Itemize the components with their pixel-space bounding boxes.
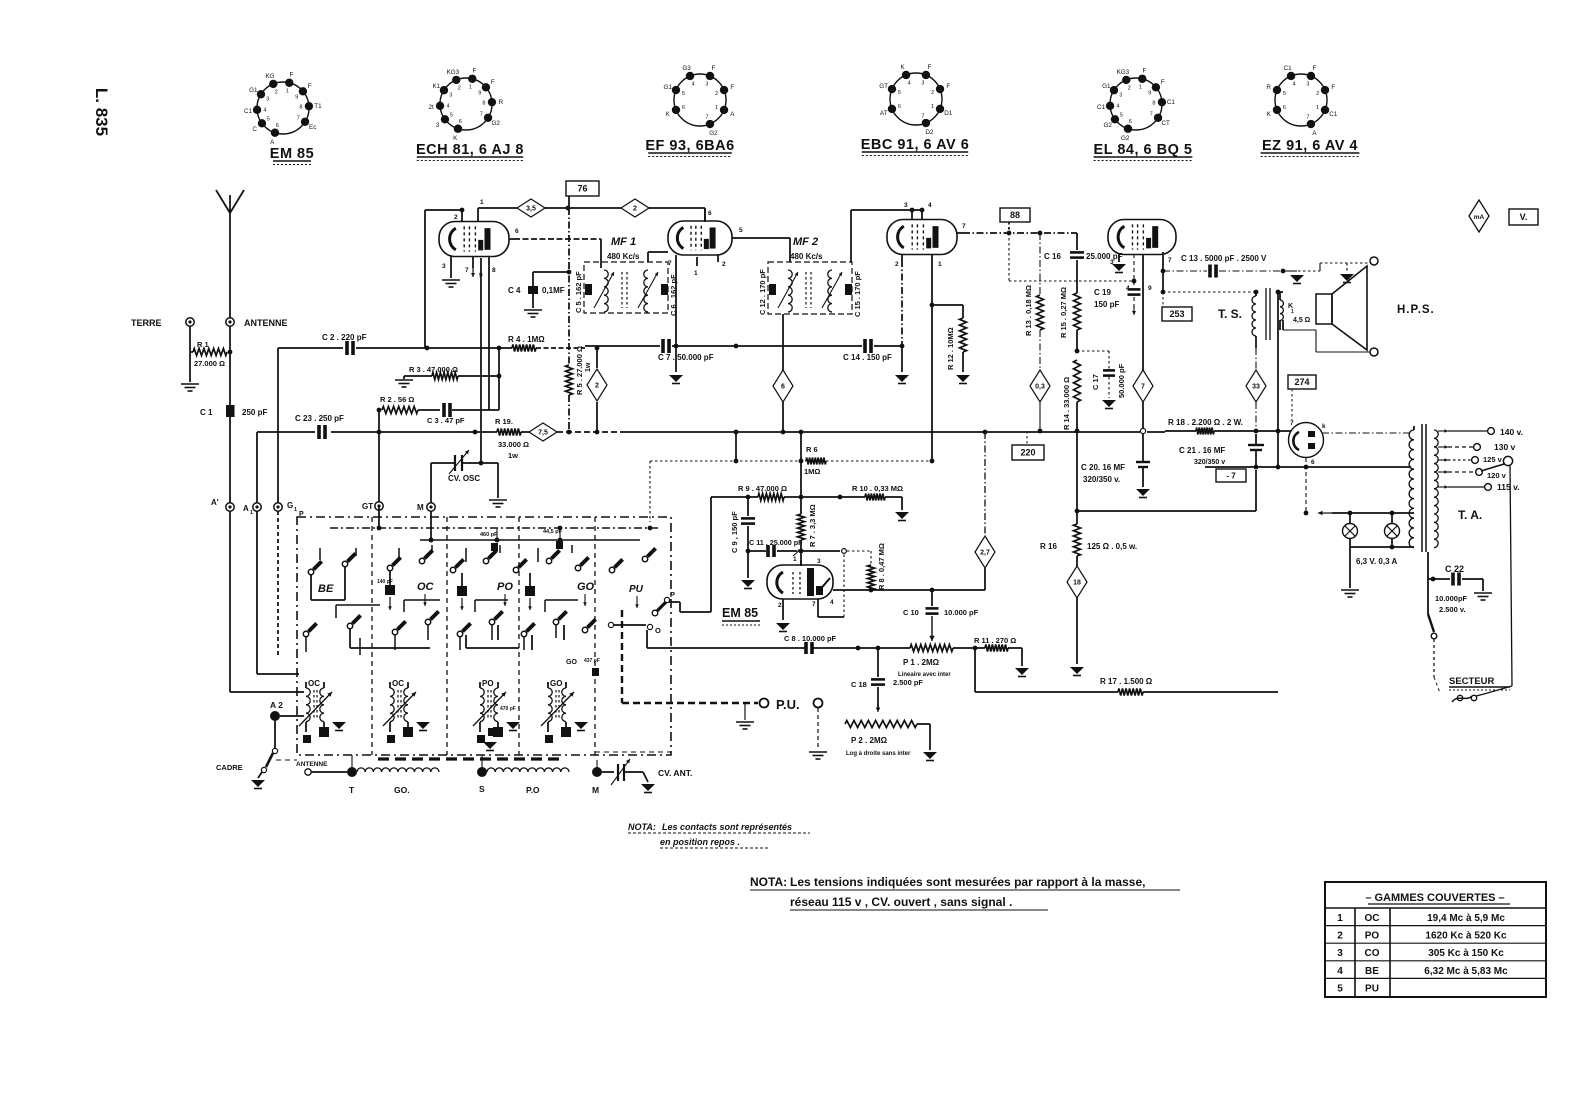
capacitor C6 162pF bbox=[661, 274, 678, 316]
svg-text:T. S.: T. S. bbox=[1218, 307, 1242, 321]
svg-text:Les tensions indiquées sont me: Les tensions indiquées sont mesurées par… bbox=[790, 875, 1145, 889]
svg-text:CO: CO bbox=[1365, 948, 1380, 959]
svg-text:2,7: 2,7 bbox=[980, 550, 990, 557]
svg-text:1: 1 bbox=[1139, 85, 1142, 91]
svg-text:F: F bbox=[711, 65, 715, 72]
svg-text:KG3: KG3 bbox=[1117, 69, 1130, 76]
svg-text:140 v.: 140 v. bbox=[1500, 427, 1523, 437]
svg-text:AT: AT bbox=[880, 110, 888, 117]
svg-text:18: 18 bbox=[1073, 580, 1081, 587]
wire EF93 plate to MF2 bbox=[738, 237, 790, 239]
svg-text:3: 3 bbox=[904, 202, 908, 209]
ground below TERRE bbox=[181, 352, 199, 391]
svg-text:G1: G1 bbox=[249, 87, 258, 94]
voltage diamond 3,5 bbox=[517, 199, 545, 217]
svg-text:C 9 , 150 pF: C 9 , 150 pF bbox=[730, 511, 739, 553]
svg-text:10.000 pF: 10.000 pF bbox=[944, 608, 979, 617]
svg-text:Les contacts sont représentés: Les contacts sont représentés bbox=[662, 822, 792, 832]
svg-text:R: R bbox=[1266, 84, 1271, 91]
bus to EZ91 bbox=[1165, 430, 1196, 432]
capacitor C1 250pF bbox=[200, 405, 267, 417]
wire AVC line y=348 bbox=[278, 347, 343, 349]
resistor R17 1.500 ohm bbox=[1100, 677, 1153, 696]
wire MF2 secondary to EBC91 bbox=[850, 210, 852, 262]
svg-text:320/350 v: 320/350 v bbox=[1194, 459, 1225, 466]
svg-text:C 1: C 1 bbox=[200, 408, 213, 417]
capacitor C15 170pF bbox=[845, 271, 862, 317]
svg-text:C1: C1 bbox=[1097, 104, 1106, 111]
svg-text:– GAMMES COUVERTES –: – GAMMES COUVERTES – bbox=[1365, 892, 1504, 904]
svg-text:1: 1 bbox=[715, 105, 718, 111]
svg-text:P 1 . 2MΩ: P 1 . 2MΩ bbox=[903, 658, 940, 667]
wire y=497 R9 R10 bbox=[711, 496, 758, 498]
svg-text:C1: C1 bbox=[244, 108, 253, 115]
svg-text:NOTA:: NOTA: bbox=[750, 875, 787, 889]
voltage diamond 6 bbox=[773, 314, 793, 432]
capacitor C4 0,1MF bbox=[508, 270, 571, 317]
terminal G1 bbox=[274, 501, 304, 518]
svg-text:2: 2 bbox=[275, 89, 278, 95]
PU jacks bbox=[760, 697, 823, 712]
svg-text:P.U.: P.U. bbox=[776, 697, 800, 712]
wire cathode line y=467 bbox=[1205, 466, 1256, 468]
svg-text:1: 1 bbox=[1337, 913, 1343, 924]
svg-text:7: 7 bbox=[812, 601, 816, 608]
dashed drop to GO section bbox=[649, 461, 651, 522]
band label GO bbox=[577, 581, 595, 606]
ECH81 pin stubs bbox=[442, 199, 519, 279]
svg-text:470 pF: 470 pF bbox=[500, 706, 516, 712]
svg-text:2: 2 bbox=[458, 85, 461, 91]
svg-text:6: 6 bbox=[781, 384, 785, 391]
resistor R10 0,33M bbox=[852, 484, 903, 501]
svg-text:8: 8 bbox=[299, 105, 302, 111]
svg-text:5: 5 bbox=[1283, 91, 1286, 97]
band label BE bbox=[318, 583, 334, 595]
svg-text:120 v: 120 v bbox=[1487, 471, 1507, 480]
svg-text:L. 835: L. 835 bbox=[92, 88, 111, 136]
svg-text:Ec: Ec bbox=[309, 124, 316, 131]
shielded PU lead bbox=[621, 610, 623, 703]
svg-text:G2: G2 bbox=[709, 130, 718, 137]
voltage diamond 0,3 bbox=[1030, 370, 1050, 402]
ground PU right bbox=[809, 708, 827, 759]
svg-text:C 4: C 4 bbox=[508, 286, 521, 295]
voltage diamond 18 bbox=[1067, 566, 1087, 598]
svg-text:R 14 . 33.000 Ω: R 14 . 33.000 Ω bbox=[1062, 377, 1071, 430]
EM85 pins bbox=[776, 553, 844, 632]
svg-text:F: F bbox=[473, 68, 477, 75]
svg-text:3: 3 bbox=[436, 122, 440, 129]
svg-text:C 22: C 22 bbox=[1445, 564, 1464, 574]
svg-text:F: F bbox=[1312, 65, 1316, 72]
svg-text:1: 1 bbox=[250, 510, 253, 516]
svg-text:GO: GO bbox=[550, 679, 562, 688]
arrow ECH81 pin7 bbox=[472, 268, 474, 277]
svg-text:7: 7 bbox=[705, 115, 708, 121]
capacitor C13 5000pF 2500V bbox=[1163, 254, 1304, 284]
svg-text:C 20. 16 MF: C 20. 16 MF bbox=[1081, 463, 1125, 472]
svg-text:9: 9 bbox=[295, 94, 298, 100]
resistor R3 47.000 ohm bbox=[404, 365, 501, 380]
wire ECH81 grid loop bbox=[424, 210, 426, 347]
svg-text:1w: 1w bbox=[508, 451, 518, 460]
svg-text:C 3 . 47 pF: C 3 . 47 pF bbox=[427, 416, 465, 425]
wire grid top y=208 bbox=[478, 207, 517, 209]
svg-text:M: M bbox=[592, 785, 599, 795]
table row 5 PU bbox=[1325, 978, 1546, 994]
EZ91 heater drop bbox=[1305, 458, 1307, 513]
svg-text:G2: G2 bbox=[491, 120, 500, 127]
svg-text:EBC 91, 6 AV 6: EBC 91, 6 AV 6 bbox=[861, 137, 970, 153]
svg-text:V.: V. bbox=[1520, 212, 1528, 222]
svg-text:OC: OC bbox=[308, 679, 320, 688]
svg-text:G3: G3 bbox=[682, 65, 691, 72]
svg-text:7: 7 bbox=[1306, 115, 1309, 121]
svg-text:R 17 . 1.500 Ω: R 17 . 1.500 Ω bbox=[1100, 677, 1153, 686]
svg-text:F: F bbox=[290, 72, 294, 79]
resistor R18 2.200 ohm 2W bbox=[1168, 418, 1243, 435]
svg-text:437 pF: 437 pF bbox=[584, 658, 600, 664]
svg-text:3: 3 bbox=[705, 81, 708, 87]
svg-text:en position repos .: en position repos . bbox=[660, 837, 740, 847]
wire AF bus y=648 bbox=[646, 630, 648, 648]
svg-text:- 7: - 7 bbox=[1226, 472, 1236, 481]
svg-text:1: 1 bbox=[694, 270, 698, 277]
svg-text:GO.: GO. bbox=[394, 785, 410, 795]
svg-text:T: T bbox=[349, 785, 355, 795]
svg-text:5: 5 bbox=[739, 227, 743, 234]
shielding bar above coil strip bbox=[378, 757, 564, 760]
wire line y=461 with R6 bbox=[650, 460, 806, 462]
tap 140v bbox=[1438, 430, 1448, 432]
capacitor C20 16MF bbox=[1081, 434, 1150, 498]
svg-text:R 1: R 1 bbox=[197, 340, 209, 349]
svg-text:1: 1 bbox=[1291, 309, 1294, 315]
band label PU bbox=[629, 584, 644, 608]
EZ91 rectifier bbox=[1289, 420, 1327, 466]
secteur switch bbox=[1428, 579, 1437, 677]
svg-text:OC: OC bbox=[392, 679, 404, 688]
svg-text:2: 2 bbox=[1128, 85, 1131, 91]
resistor R5 27.000 ohm 1w bbox=[566, 346, 593, 395]
svg-text:1: 1 bbox=[1316, 105, 1319, 111]
svg-text:150 pF: 150 pF bbox=[1094, 300, 1119, 309]
svg-text:C 17: C 17 bbox=[1091, 374, 1100, 390]
svg-text:480 Kc/s: 480 Kc/s bbox=[607, 252, 640, 261]
capacitor C22 bbox=[1428, 552, 1492, 614]
svg-text:2t: 2t bbox=[428, 104, 434, 111]
svg-text:8: 8 bbox=[492, 267, 496, 274]
voltage diamond 7 bbox=[1133, 370, 1153, 434]
tap 130v bbox=[1438, 446, 1448, 448]
svg-text:K1: K1 bbox=[432, 83, 440, 90]
terminal A-prime bbox=[211, 498, 234, 511]
svg-text:KG3: KG3 bbox=[447, 69, 460, 76]
svg-text:G1: G1 bbox=[1102, 83, 1111, 90]
wire A1 drop bbox=[256, 432, 258, 503]
label SECTEUR bbox=[1449, 676, 1510, 690]
svg-text:C 19: C 19 bbox=[1094, 288, 1111, 297]
wire 76 drop / R5 line bbox=[568, 196, 570, 208]
band label PO bbox=[497, 581, 513, 606]
svg-text:7: 7 bbox=[297, 116, 300, 122]
wave switch contacts row B bbox=[303, 631, 308, 636]
svg-text:5: 5 bbox=[450, 113, 453, 119]
IF transformer MF1 480 Kc/s bbox=[584, 236, 668, 313]
svg-text:250 pF: 250 pF bbox=[242, 408, 267, 417]
svg-text:125 Ω . 0,5 w.: 125 Ω . 0,5 w. bbox=[1087, 542, 1137, 551]
table row 4 BE bbox=[1325, 961, 1546, 977]
coil group L-PO bbox=[473, 679, 520, 743]
svg-text:R 4 . 1MΩ: R 4 . 1MΩ bbox=[508, 335, 545, 344]
svg-text:P 2 . 2MΩ: P 2 . 2MΩ bbox=[851, 736, 888, 745]
tap 125v bbox=[1438, 459, 1448, 461]
svg-text:C 21 . 16 MF: C 21 . 16 MF bbox=[1179, 446, 1225, 455]
svg-text:R 13 . 0,18 MΩ: R 13 . 0,18 MΩ bbox=[1024, 285, 1033, 336]
svg-text:253: 253 bbox=[1169, 309, 1184, 319]
svg-text:4: 4 bbox=[908, 80, 911, 86]
dashed PU screen box bbox=[670, 752, 672, 755]
wire EF93 cathode bypass bbox=[675, 262, 677, 372]
svg-text:1: 1 bbox=[931, 104, 934, 110]
resistor R4 1M bbox=[508, 335, 545, 352]
coil PO antenna rod bbox=[487, 768, 569, 795]
svg-text:P.O: P.O bbox=[526, 785, 540, 795]
terminal A2 bbox=[270, 700, 304, 721]
mains selector arm bbox=[1481, 456, 1513, 686]
svg-text:GO: GO bbox=[566, 659, 577, 666]
wire AF bus2 y=692 with R17 bbox=[975, 691, 1118, 693]
speaker terminals bbox=[1280, 257, 1378, 356]
note tensions bbox=[750, 875, 1180, 910]
svg-text:S: S bbox=[479, 784, 485, 794]
wire C11 to R8 top bbox=[801, 550, 840, 552]
wire antenna vertical bbox=[229, 326, 231, 405]
resistor R9 47.000 ohm bbox=[738, 484, 787, 501]
svg-text:G2: G2 bbox=[1121, 135, 1130, 142]
wire C21 return y=511 bbox=[1077, 510, 1256, 512]
svg-text:320/350 v.: 320/350 v. bbox=[1083, 475, 1120, 484]
svg-text:F: F bbox=[927, 64, 931, 71]
svg-text:P: P bbox=[670, 590, 675, 599]
svg-text:R 9 . 47.000 Ω: R 9 . 47.000 Ω bbox=[738, 484, 787, 493]
tube socket EZ91 bbox=[1261, 65, 1360, 156]
svg-text:2.500 v.: 2.500 v. bbox=[1439, 605, 1466, 614]
svg-text:115 v.: 115 v. bbox=[1497, 482, 1520, 492]
svg-text:7: 7 bbox=[1141, 384, 1145, 391]
svg-text:F: F bbox=[1161, 79, 1165, 86]
svg-text:7: 7 bbox=[668, 260, 672, 267]
svg-text:2: 2 bbox=[595, 383, 599, 390]
svg-text:M: M bbox=[417, 503, 424, 512]
wire bus to grid network bbox=[735, 432, 737, 462]
svg-text:1: 1 bbox=[938, 261, 942, 268]
svg-text:7: 7 bbox=[921, 114, 924, 120]
svg-text:CT: CT bbox=[1161, 120, 1170, 127]
svg-text:R 19.: R 19. bbox=[495, 417, 513, 426]
capacitor C17 50.000pF bbox=[1077, 351, 1126, 409]
svg-text:MF 2: MF 2 bbox=[793, 236, 818, 248]
voltage diamond 2 vertical bbox=[587, 346, 607, 432]
svg-text:R 8 . 0,47 MΩ: R 8 . 0,47 MΩ bbox=[877, 543, 886, 590]
svg-text:GT: GT bbox=[879, 83, 888, 90]
feedback dashed from TS bottom bbox=[1255, 348, 1257, 370]
terminal T bbox=[347, 767, 357, 795]
voltage box 253 bbox=[1162, 307, 1192, 321]
wire oscillator grid vertical bbox=[498, 348, 500, 410]
svg-text:3: 3 bbox=[1337, 948, 1343, 959]
svg-text:C 16: C 16 bbox=[1044, 252, 1061, 261]
svg-text:3: 3 bbox=[1306, 81, 1309, 87]
svg-text:C 2 . 220 pF: C 2 . 220 pF bbox=[322, 333, 367, 342]
terminal small antenna bbox=[296, 761, 347, 775]
svg-text:9: 9 bbox=[1148, 90, 1151, 96]
capacitor C10 10.000pF bbox=[903, 590, 979, 641]
svg-text:3: 3 bbox=[442, 263, 446, 270]
svg-text:mA: mA bbox=[1474, 214, 1485, 221]
svg-text:480 Kc/s: 480 Kc/s bbox=[790, 252, 823, 261]
trimmer 460pF top bbox=[480, 528, 499, 551]
capacitor C14 150pF bbox=[843, 339, 904, 362]
vertical chain R13 bbox=[1024, 233, 1044, 433]
potentiometer P2 2M bbox=[845, 721, 937, 761]
svg-text:R 2 . 56 Ω: R 2 . 56 Ω bbox=[380, 395, 414, 404]
svg-text:27.000 Ω: 27.000 Ω bbox=[194, 359, 225, 368]
svg-text:2: 2 bbox=[454, 214, 458, 221]
capacitor C21 16MF bbox=[1179, 434, 1264, 469]
trimmer CV.ANT bbox=[602, 759, 692, 793]
svg-text:G1: G1 bbox=[663, 84, 672, 91]
cadre switch bbox=[251, 721, 278, 789]
voltage diamond 33 bbox=[1246, 370, 1266, 402]
svg-text:GO: GO bbox=[577, 581, 595, 593]
svg-text:PO: PO bbox=[1365, 931, 1380, 942]
svg-text:3: 3 bbox=[266, 96, 269, 102]
svg-text:O: O bbox=[655, 626, 661, 635]
svg-text:D2: D2 bbox=[925, 129, 934, 136]
ground speaker top bbox=[1340, 263, 1354, 283]
voltage diamond 2,7 bbox=[975, 432, 995, 590]
tap 120v bbox=[1438, 471, 1448, 473]
svg-text:0,3: 0,3 bbox=[1035, 384, 1045, 391]
svg-text:1: 1 bbox=[793, 556, 797, 563]
wire GT drop bbox=[378, 410, 380, 502]
svg-text:NOTA:: NOTA: bbox=[628, 822, 656, 832]
table gammes couvertes bbox=[1325, 882, 1546, 997]
svg-text:F: F bbox=[1143, 68, 1147, 75]
coil GO antenna rod bbox=[357, 768, 439, 795]
wire terre stub bbox=[189, 326, 191, 352]
capacitor C12 170pF bbox=[758, 269, 776, 315]
wire AVC continue bbox=[676, 345, 862, 347]
capacitor C19 150pF bbox=[1094, 281, 1141, 315]
tube socket EBC91 bbox=[861, 64, 970, 155]
svg-text:3: 3 bbox=[449, 92, 452, 98]
switch bus lines bbox=[330, 527, 660, 529]
svg-text:7: 7 bbox=[962, 223, 966, 230]
svg-text:2.500 pF: 2.500 pF bbox=[893, 678, 923, 687]
svg-text:A': A' bbox=[211, 498, 219, 507]
capacitor C5 162pF bbox=[574, 271, 592, 313]
svg-text:6: 6 bbox=[459, 119, 462, 125]
svg-text:R 12 . 10MΩ: R 12 . 10MΩ bbox=[946, 327, 955, 370]
svg-text:Log à droite sans inter: Log à droite sans inter bbox=[846, 751, 911, 757]
svg-text:H.P.S.: H.P.S. bbox=[1397, 304, 1435, 316]
meter diamond mA bbox=[1469, 200, 1489, 232]
voltage box 88 bbox=[1000, 208, 1030, 222]
band label OC bbox=[417, 581, 435, 606]
band switch unit dashed enclosure bbox=[297, 517, 671, 755]
svg-text:réseau 115 v , CV. ouvert ,: réseau 115 v , CV. ouvert , sans signal … bbox=[790, 895, 1012, 909]
coil group L-OC1 bbox=[299, 679, 346, 743]
EF93 pin stubs bbox=[668, 208, 743, 277]
B+ vertical bbox=[1277, 292, 1279, 431]
svg-text:5: 5 bbox=[1337, 983, 1343, 994]
svg-text:6: 6 bbox=[682, 105, 685, 111]
svg-text:3,5: 3,5 bbox=[526, 206, 536, 213]
wires coil strip risers bbox=[351, 755, 353, 767]
svg-text:6,3 V. 0,3 A: 6,3 V. 0,3 A bbox=[1356, 557, 1397, 566]
svg-text:R: R bbox=[499, 99, 504, 106]
speaker HPS bbox=[1316, 266, 1435, 350]
wave switch contacts row A bbox=[308, 569, 313, 574]
voltage diamond 7,5 bbox=[529, 423, 557, 441]
svg-text:F: F bbox=[308, 83, 312, 90]
terminal M strip bbox=[592, 767, 602, 795]
wire osc grid to CV bbox=[480, 455, 482, 463]
svg-text:33: 33 bbox=[1252, 384, 1260, 391]
bus continuation y=432 bbox=[971, 431, 1140, 433]
svg-text:305 Kc à 150 Kc: 305 Kc à 150 Kc bbox=[1428, 948, 1504, 959]
vertical chain C16 R15 R14 bbox=[1044, 233, 1123, 433]
svg-text:ECH 81, 6 AJ 8: ECH 81, 6 AJ 8 bbox=[416, 142, 524, 158]
svg-text:3: 3 bbox=[1119, 92, 1122, 98]
table row 1 OC bbox=[1337, 913, 1505, 924]
wire EZ91 plate to TA bbox=[1288, 430, 1291, 432]
terminal ANTENNE bbox=[226, 318, 288, 328]
wire MF1 secondary to EF93 grid bbox=[647, 252, 649, 262]
svg-text:4: 4 bbox=[1337, 966, 1343, 977]
svg-text:4,5 Ω: 4,5 Ω bbox=[1293, 317, 1311, 324]
svg-text:2: 2 bbox=[931, 90, 934, 96]
tube EL84 V5 envelope bbox=[1108, 220, 1176, 255]
svg-text:76: 76 bbox=[577, 184, 587, 194]
svg-text:k: k bbox=[1322, 423, 1326, 430]
capacitor C8 10.000pF bbox=[784, 634, 837, 654]
antenna mast bbox=[216, 190, 244, 318]
svg-text:1: 1 bbox=[480, 199, 484, 206]
svg-text:C1: C1 bbox=[1284, 65, 1293, 72]
switch section dividers bbox=[371, 517, 373, 755]
svg-text:C 23 . 250 pF: C 23 . 250 pF bbox=[295, 414, 344, 423]
svg-text:7: 7 bbox=[465, 267, 469, 274]
wire PU blade to EM85 grid bbox=[669, 601, 680, 603]
svg-text:130 v: 130 v bbox=[1494, 442, 1516, 452]
note contacts repos bbox=[628, 822, 810, 848]
EL84 pin stubs bbox=[1110, 252, 1172, 372]
svg-text:R 11 . 270 Ω: R 11 . 270 Ω bbox=[974, 636, 1016, 645]
svg-text:PU: PU bbox=[1365, 983, 1379, 994]
svg-text:R 15 . 0,27 MΩ: R 15 . 0,27 MΩ bbox=[1059, 287, 1068, 338]
svg-text:C 7 . 50.000 pF: C 7 . 50.000 pF bbox=[658, 353, 714, 362]
svg-text:C: C bbox=[252, 126, 257, 133]
svg-text:R 6: R 6 bbox=[806, 445, 818, 454]
svg-text:GT: GT bbox=[362, 502, 373, 511]
svg-text:6: 6 bbox=[708, 210, 712, 217]
svg-text:EZ 91, 6 AV 4: EZ 91, 6 AV 4 bbox=[1262, 138, 1358, 154]
svg-text:T1: T1 bbox=[314, 103, 322, 110]
